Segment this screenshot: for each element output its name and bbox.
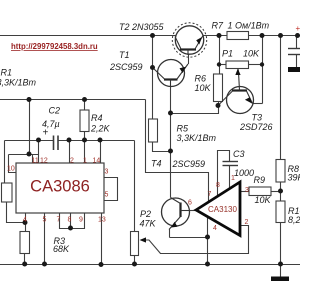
svg-text:13: 13 (98, 217, 106, 224)
wire C3 bracket pin8 (218, 151, 230, 197)
svg-text:T2 2N3055: T2 2N3055 (119, 22, 165, 32)
wire R5 bottom bend (153, 142, 171, 152)
svg-text:C2: C2 (49, 106, 61, 116)
resistor R3 (20, 232, 30, 254)
wire C4 top lead (296, 36, 298, 49)
wire T1 collector to R5 top (152, 68, 154, 120)
wire pin13 down (101, 213, 103, 265)
node pin2 (67, 138, 72, 143)
capacitor C4 plates (288, 49, 300, 55)
svg-text:39K: 39K (288, 173, 301, 183)
svg-text:2SC959: 2SC959 (109, 62, 143, 72)
wire opamp pin6 to T4 base (181, 210, 197, 212)
node P1 right (260, 62, 264, 66)
svg-text:3: 3 (245, 187, 249, 194)
resistor R7 (2, 32, 286, 256)
svg-text:4: 4 (213, 225, 217, 232)
node R7 right (260, 33, 265, 38)
transistor T3 (218, 72, 254, 114)
node R5 bottom (168, 149, 173, 154)
ground rail dots (22, 262, 27, 267)
wire R4 bottom to pin1 (84, 132, 86, 164)
svg-text:2SC959: 2SC959 (172, 159, 206, 169)
node R4 bottom (82, 138, 87, 143)
svg-text:3,3K/1Вт: 3,3K/1Вт (0, 78, 37, 88)
svg-text:1: 1 (83, 158, 87, 165)
svg-text:+: + (43, 128, 49, 139)
resistor R6 (214, 74, 223, 102)
node R7 left (217, 33, 222, 38)
node T1 collector (150, 65, 155, 70)
svg-text:10K: 10K (243, 49, 260, 59)
node pin4 opamp (205, 235, 210, 240)
wire pin14 stub (100, 141, 102, 164)
svg-text:P1: P1 (222, 49, 233, 59)
node R6 bottom / T3 (216, 103, 221, 108)
wire op-amp pin3 to R9 (240, 191, 249, 193)
wire pin2 stub (69, 141, 71, 164)
wire top rail right (T2 emitter to output) (202, 35, 300, 37)
wire P1 left lead (220, 64, 227, 66)
wire C4 bottom lead (296, 55, 298, 68)
wire T1 base down to node (170, 80, 172, 114)
resistor R4 (80, 110, 89, 132)
svg-text:1 Ом/1Вт: 1 Ом/1Вт (228, 21, 270, 31)
wire node(170,113) down to node(170,151) (170, 114, 172, 152)
svg-text:CA3130: CA3130 (208, 205, 237, 214)
node R4 top (82, 97, 87, 102)
wire y151 horizontal (9, 154, 39, 156)
wire R2 bottom to pin4 (7, 202, 26, 223)
svg-text:C3: C3 (233, 149, 245, 159)
node y151 (27, 152, 32, 157)
wire pin4 node to ground (207, 238, 209, 265)
svg-text:11: 11 (32, 158, 39, 165)
potentiometer P2 (131, 232, 139, 256)
svg-text:3: 3 (105, 169, 109, 176)
svg-text:2: 2 (70, 158, 74, 165)
svg-text:8: 8 (68, 217, 72, 224)
ground bar top right (C4) (288, 67, 300, 72)
wire drop x28 rail to y151 (29, 100, 31, 155)
wire pin3-5 loop (104, 178, 118, 201)
svg-text:R4: R4 (91, 113, 103, 123)
wire pins 7-8-9 bracket (60, 213, 85, 229)
wire R6 bottom (218, 102, 220, 106)
node pins789 (68, 226, 73, 231)
capacitor C3 plates (223, 162, 239, 166)
svg-text:10: 10 (7, 166, 15, 173)
svg-text:R9: R9 (254, 175, 266, 185)
wire T2 base down (188, 50, 190, 65)
capacitor C2 plates (54, 136, 59, 151)
svg-text:4: 4 (23, 217, 27, 224)
resistor R5 (149, 119, 158, 142)
svg-text:1000: 1000 (234, 168, 254, 178)
transistor T4 (162, 198, 191, 230)
wire C3 to pin1 (229, 166, 231, 189)
node P1 left (217, 62, 221, 66)
P2 wiper arrow (140, 237, 147, 242)
P1 wiper arrow (237, 69, 240, 72)
svg-text:9: 9 (79, 217, 83, 224)
wire riser C2 net to y151 (38, 141, 40, 164)
svg-text:2,2K: 2,2K (90, 124, 111, 134)
svg-text:8: 8 (216, 182, 220, 189)
wire R9 to node (271, 191, 281, 193)
svg-text:2SD726: 2SD726 (239, 122, 273, 132)
svg-text:7: 7 (208, 191, 212, 198)
svg-text:CA3086: CA3086 (30, 178, 90, 196)
svg-text:47K: 47K (140, 219, 157, 229)
svg-text:10K: 10K (255, 195, 272, 205)
wire pin4 to R3 (25, 213, 27, 232)
svg-text:7: 7 (57, 217, 61, 224)
transistor T2 (172, 23, 206, 57)
svg-text:3,3K/1Вт: 3,3K/1Вт (177, 133, 217, 143)
svg-text:14: 14 (93, 158, 101, 165)
node pin4/R3 (23, 220, 28, 225)
svg-text:R1: R1 (1, 68, 13, 78)
transistor T1 (153, 60, 189, 87)
wire C2 right net (58, 140, 135, 142)
node rail x28 (27, 97, 32, 102)
wire P1 right lead (249, 64, 263, 66)
node rail/T2 (150, 33, 155, 38)
potentiometer P1 (226, 61, 249, 69)
wire C2 left net (5, 140, 54, 142)
wire P1 left riser (219, 36, 221, 75)
wire opamp pin4 down (207, 217, 209, 238)
resistor R2 (2, 183, 13, 202)
wire T4 collector (170, 152, 172, 198)
wire node(170,113) to T3/R6 (171, 106, 219, 114)
wire node B1 drop from rail x152 (152, 36, 154, 68)
svg-text:5: 5 (43, 217, 47, 224)
svg-text:http://299792458.3dn.ru: http://299792458.3dn.ru (11, 42, 98, 51)
svg-text:R7: R7 (212, 21, 224, 31)
wire T3 emitter out (253, 103, 263, 105)
wire pin4 node to T4 emitter (170, 237, 208, 239)
node T1 base / T4 collector (168, 111, 173, 116)
wire ground rail (0, 264, 300, 266)
svg-text:T3: T3 (252, 113, 263, 123)
svg-text:8,2К: 8,2К (288, 215, 300, 225)
wire top rail V+ left (0, 35, 176, 37)
wire mid rail corner down to pin7 feed (146, 100, 209, 203)
op-amp U1 CA3130 (196, 182, 240, 236)
svg-text:R6: R6 (195, 74, 207, 84)
svg-text:+: + (296, 24, 301, 33)
svg-text:6: 6 (188, 200, 192, 207)
pin numbers CA3086 top (7, 158, 249, 233)
resistor R8 (276, 160, 285, 183)
svg-text:2: 2 (245, 219, 249, 226)
svg-text:T1: T1 (119, 50, 130, 60)
wire mid rail y99 (0, 99, 146, 101)
svg-text:T4: T4 (151, 159, 162, 169)
svg-text:10K: 10K (195, 83, 212, 93)
resistor R9 (249, 187, 271, 196)
svg-text:5: 5 (105, 192, 109, 199)
svg-text:12: 12 (40, 158, 48, 165)
ground bar bottom (271, 277, 289, 282)
wire P2 bottom (134, 256, 136, 265)
wire R2 riser (4, 141, 6, 184)
node C2 right (36, 138, 41, 143)
wire opamp pin2 stub (160, 226, 249, 254)
wire pin5 down (44, 213, 46, 265)
svg-text:1: 1 (231, 175, 235, 182)
svg-text:P2: P2 (140, 209, 151, 219)
resistor R10 (276, 201, 285, 223)
wire pin11 stub (32, 155, 34, 164)
node pin14 (98, 138, 103, 143)
wire P2 wiper diagonal (146, 240, 161, 254)
wire pin10 path (9, 155, 17, 173)
wire P2 riser (134, 141, 136, 232)
IC U2 CA3086 body (16, 163, 104, 213)
wire R4 top (84, 100, 86, 111)
svg-text:68K: 68K (53, 244, 70, 254)
node R9/R8/R10 (278, 189, 283, 194)
svg-text:R5: R5 (177, 124, 189, 134)
wire ground stub under rail (280, 265, 282, 277)
wire R3 bottom (24, 254, 26, 265)
wire P1 right riser (262, 36, 264, 104)
node R8 top (278, 33, 283, 38)
node C4 top (295, 33, 300, 38)
wire right column R8 chain (280, 36, 282, 160)
